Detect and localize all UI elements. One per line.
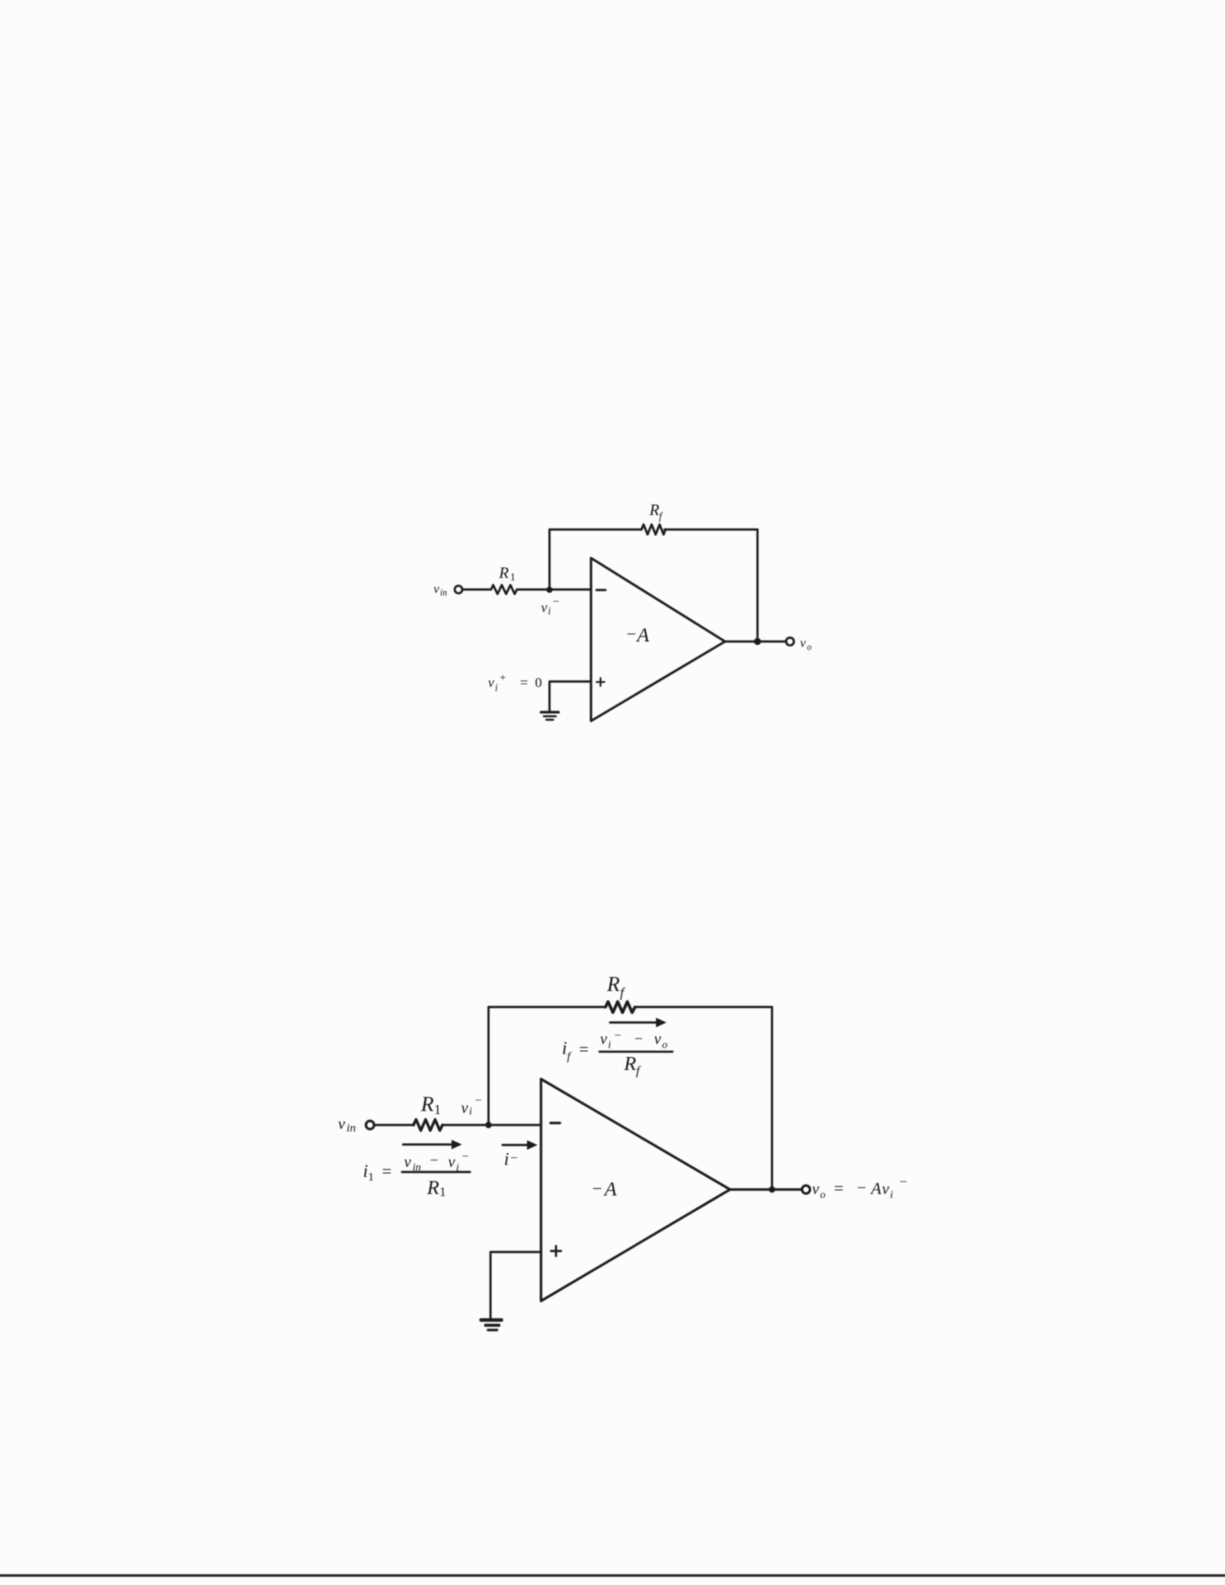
svg-text:−: − (511, 1150, 518, 1165)
svg-text:v: v (800, 635, 806, 650)
op-amp U1 minus input marking (597, 589, 606, 591)
svg-text:v: v (448, 1154, 456, 1171)
label vo (800, 635, 812, 652)
label i- (504, 1149, 518, 1169)
op-amp U1 plus input marking (597, 678, 605, 686)
svg-text:f: f (659, 512, 664, 523)
svg-text:i: i (469, 1106, 472, 1118)
formula if = (vi- - vo)/Rf (562, 1028, 668, 1078)
svg-text:o: o (662, 1039, 668, 1051)
bottom rule line (0, 1574, 1225, 1577)
svg-text:1: 1 (510, 572, 516, 584)
label Rf (circuit 2) (606, 972, 626, 1001)
node vi- (junction dot, circuit 2) (485, 1122, 491, 1128)
op-amp U2 (triangle) (541, 1079, 730, 1301)
svg-text:=: = (382, 1162, 392, 1181)
svg-text:i: i (504, 1149, 509, 1169)
wire feedback left vertical (circuit 2) (487, 1007, 489, 1125)
label R1 (498, 565, 516, 584)
svg-text:−: − (462, 1149, 469, 1163)
label -A (gain, circuit 2) (592, 1179, 618, 1201)
current arrow i1 (under R1) (403, 1140, 462, 1149)
svg-text:v: v (812, 1181, 820, 1198)
label R1 (circuit 2) (420, 1092, 441, 1118)
svg-text:v: v (882, 1181, 890, 1198)
label vin (434, 581, 448, 598)
current arrow i- (into minus input) (503, 1140, 538, 1149)
ground (circuit 1) (541, 712, 559, 720)
svg-text:=: = (520, 676, 528, 691)
svg-text:o: o (807, 642, 812, 652)
svg-text:A: A (603, 1179, 618, 1201)
svg-text:1: 1 (434, 1103, 441, 1118)
label vo = -Avi- (812, 1174, 907, 1201)
terminal vin (input, circuit 1) (455, 586, 463, 594)
label vi- (circuit 2) (461, 1093, 482, 1118)
svg-text:R: R (498, 565, 509, 582)
svg-text:v: v (404, 1154, 412, 1171)
wire feedback top horizontal (circuit 2) (489, 1006, 773, 1008)
wire input to R1 (463, 588, 491, 590)
resistor R1 (491, 585, 517, 594)
svg-text:v: v (488, 676, 495, 691)
label vin (circuit 2) (338, 1116, 356, 1135)
svg-text:−: − (627, 625, 637, 644)
svg-text:=: = (579, 1040, 589, 1059)
ground (circuit 2) (481, 1320, 502, 1330)
node output (junction dot, circuit 2) (769, 1186, 775, 1192)
svg-text:v: v (434, 581, 440, 596)
wire R1 to op-amp minus input (517, 588, 591, 590)
node vi- (junction dot) (546, 587, 552, 593)
svg-text:0: 0 (535, 676, 542, 691)
svg-text:v: v (541, 601, 548, 616)
svg-text:v: v (338, 1116, 346, 1133)
label -A (gain, circuit 1) (627, 625, 651, 647)
svg-text:v: v (600, 1031, 608, 1048)
svg-text:R: R (649, 502, 660, 519)
node output (junction dot) (754, 638, 761, 645)
label vi- (541, 596, 559, 618)
svg-text:A: A (635, 625, 650, 647)
terminal vo (output, circuit 2) (802, 1186, 810, 1194)
wire input to R1 (circuit 2) (375, 1124, 414, 1126)
wire feedback right vertical (circuit 2) (771, 1007, 773, 1190)
wire output (725, 640, 786, 642)
svg-text:−: − (475, 1093, 482, 1107)
svg-text:R: R (606, 972, 620, 996)
resistor Rf (642, 525, 666, 535)
label Rf (649, 502, 665, 523)
svg-text:−: − (615, 1028, 622, 1042)
op-amp U2 plus input marking (551, 1246, 561, 1256)
svg-text:+: + (500, 673, 506, 684)
svg-text:i: i (548, 607, 551, 618)
wire feedback right vertical (756, 530, 758, 642)
terminal vin (input, circuit 2) (366, 1121, 374, 1129)
svg-text:v: v (461, 1100, 469, 1117)
resistor R1 (circuit 2) (414, 1120, 443, 1131)
svg-text:−: − (635, 1032, 643, 1048)
svg-text:f: f (567, 1049, 572, 1063)
svg-text:−: − (857, 1180, 866, 1197)
svg-text:R: R (426, 1177, 439, 1199)
label vi+ = 0 (488, 673, 542, 694)
svg-text:i: i (890, 1189, 893, 1201)
op-amp U2 minus input marking (551, 1122, 561, 1124)
svg-text:f: f (620, 986, 626, 1001)
fraction bar of i1 formula (402, 1171, 470, 1173)
svg-text:=: = (834, 1179, 844, 1198)
svg-text:A: A (870, 1179, 882, 1198)
svg-text:1: 1 (440, 1184, 447, 1199)
svg-text:−: − (430, 1153, 438, 1169)
svg-text:−: − (592, 1179, 602, 1199)
current arrow if (under Rf) (610, 1018, 667, 1027)
wire output (circuit 2) (730, 1188, 802, 1190)
svg-text:R: R (420, 1092, 434, 1116)
wire plus input to ground (circuit 2) (491, 1252, 542, 1319)
svg-text:1: 1 (368, 1170, 374, 1184)
svg-text:o: o (820, 1189, 826, 1201)
svg-text:in: in (440, 588, 448, 598)
svg-text:i: i (608, 1039, 611, 1051)
resistor Rf (circuit 2) (606, 1002, 635, 1013)
terminal vo (output, circuit 1) (786, 638, 794, 646)
svg-text:f: f (636, 1063, 642, 1078)
wire R1 to op-amp minus input (circuit 2) (443, 1124, 542, 1126)
svg-text:R: R (623, 1053, 636, 1075)
fraction bar of if formula (600, 1051, 673, 1053)
svg-text:−: − (553, 596, 559, 608)
svg-text:−: − (900, 1174, 908, 1189)
wire feedback top horizontal (550, 528, 758, 530)
svg-text:in: in (347, 1121, 356, 1135)
formula i1 = (vin - vi-)/R1 (363, 1149, 469, 1199)
svg-text:i: i (495, 683, 498, 694)
wire feedback left vertical (548, 530, 550, 590)
svg-text:v: v (654, 1031, 662, 1048)
op-amp U1 (triangle) (591, 558, 725, 721)
wire plus input to ground (550, 682, 592, 712)
